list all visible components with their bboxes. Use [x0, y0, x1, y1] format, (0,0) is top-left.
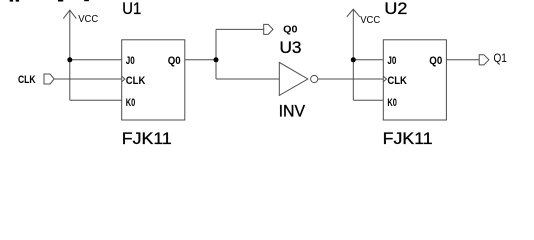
wire node Q0 vertical branch	[215, 29, 217, 79]
junction node at Q0 net	[214, 57, 219, 62]
svg-text:J0: J0	[126, 55, 135, 67]
svg-text:K0: K0	[126, 97, 136, 109]
port Q0 output symbol	[264, 24, 273, 34]
svg-text:CLK: CLK	[387, 75, 407, 87]
port CLK input symbol	[44, 74, 54, 84]
svg-text:VCC: VCC	[360, 15, 380, 26]
svg-text:J0: J0	[387, 55, 396, 67]
flip-flop U2 body	[383, 40, 446, 120]
power VCC arrow U1	[63, 10, 76, 18]
svg-text:U1: U1	[122, 0, 141, 18]
wire Q0 output of U2	[446, 59, 479, 61]
junction node at U1 J0 / VCC	[67, 57, 72, 62]
svg-text:FJK11: FJK11	[383, 129, 433, 148]
svg-text:CLK: CLK	[126, 75, 146, 87]
wire INV output to U2 CLK	[318, 78, 384, 80]
svg-text:Q1: Q1	[494, 51, 508, 65]
wire J0 of U1 from VCC rail	[70, 59, 122, 61]
svg-text:Q0: Q0	[168, 55, 181, 67]
cropped text marks at top edge	[10, 0, 89, 2]
port Q1 output symbol	[479, 55, 489, 65]
svg-text:VCC: VCC	[78, 14, 98, 25]
svg-text:U2: U2	[384, 0, 407, 18]
wire VCC rail U2 vertical	[352, 10, 354, 100]
svg-text:INV: INV	[279, 101, 306, 120]
wire VCC rail U1 vertical	[69, 10, 71, 100]
wire INV input	[216, 78, 279, 80]
svg-text:U3: U3	[280, 38, 302, 57]
svg-text:Q0: Q0	[429, 55, 442, 67]
clock pin triangle U2	[383, 76, 386, 82]
wire K0 of U2	[353, 99, 383, 101]
junction node at U2 J0 / VCC	[351, 57, 356, 62]
svg-text:Q0: Q0	[283, 25, 298, 36]
wire K0 of U1 from VCC rail	[70, 99, 122, 101]
power VCC arrow U2	[347, 9, 360, 17]
clock pin triangle U1	[122, 76, 125, 82]
svg-text:CLK: CLK	[18, 74, 36, 86]
wire CLK port to U1	[54, 78, 122, 80]
inverter U3 bubble	[311, 75, 318, 82]
wire to Q0 port	[216, 28, 264, 30]
wire J0 of U2	[353, 59, 383, 61]
svg-text:FJK11: FJK11	[122, 129, 172, 148]
flip-flop U1 body	[122, 40, 185, 120]
svg-text:K0: K0	[387, 97, 397, 109]
wire Q0 output of U1	[185, 59, 216, 61]
inverter U1 triangle	[279, 62, 308, 95]
